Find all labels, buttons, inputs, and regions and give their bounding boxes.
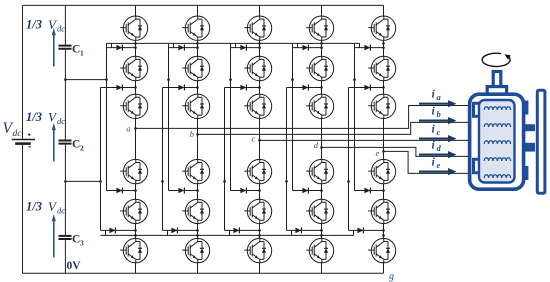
- wire: leg d column segment below switch 3: [321, 119, 323, 160]
- wire: leg a column segment below switch 2: [135, 81, 137, 94]
- svg-text:d: d: [314, 140, 319, 150]
- wire: leg c column segment below switch 2: [259, 81, 261, 94]
- wire: stub from inner bus to clamp wire leg a: [111, 43, 113, 47]
- svg-text:b: b: [190, 129, 194, 139]
- wire: left source wire upper segment: [22, 5, 24, 139]
- wire: stub from clamp wire to outer bus leg b: [167, 230, 169, 235]
- wire: outer clamp rail leg a: [100, 88, 102, 231]
- capacitor C2: [59, 141, 72, 144]
- clamping diode Dc1: [240, 45, 246, 51]
- svg-text:e: e: [376, 148, 380, 158]
- junction node leg d at y=47.6: [320, 46, 323, 49]
- wire: leg d column segment below switch 4: [321, 184, 323, 199]
- wire: clamp connection at y=230.4 leg d: [287, 229, 322, 231]
- clamping diode Dc4: [233, 227, 239, 233]
- clamping diode Da2: [116, 85, 122, 91]
- wire: phase b output line to motor: [198, 122, 478, 134]
- wire: leg e column bottom connection: [383, 263, 385, 274]
- clamping diode Dd3: [302, 188, 308, 194]
- clamping diode Da3: [116, 188, 122, 194]
- IGBT switch Sb6 with freewheeling diode: [182, 238, 210, 262]
- wire: leg c column segment below switch 3: [259, 119, 261, 160]
- wire: outer clamp rail leg d: [286, 88, 288, 231]
- junction node inner bus crossing leg c: [258, 42, 261, 45]
- IGBT switch Sd3 with freewheeling diode: [306, 94, 334, 118]
- IGBT switch Sc1 with freewheeling diode: [244, 16, 272, 40]
- wire: leg a column segment below switch 3: [135, 119, 137, 160]
- wire: phase a output line to motor: [136, 106, 478, 129]
- wire: clamp connection at y=87.5 leg e: [349, 87, 384, 89]
- svg-text:c: c: [252, 134, 256, 144]
- wire: common bus linking inner clamp rails: [107, 42, 360, 44]
- current arrow i_c: [419, 138, 449, 140]
- wire: bottom DC bus (0V rail): [23, 272, 384, 274]
- IGBT switch Sb4 with freewheeling diode: [182, 159, 210, 183]
- clamping diode Dd1: [302, 45, 308, 51]
- junction node leg c at y=47.6: [258, 46, 261, 49]
- IGBT switch Sb3 with freewheeling diode: [182, 94, 210, 118]
- IGBT switch Sd4 with freewheeling diode: [306, 159, 334, 183]
- rotation arrow above shaft: [482, 53, 510, 66]
- wire: clamp connection at y=87.5 leg c: [225, 87, 260, 89]
- wire: outer clamp rail leg b: [162, 88, 164, 231]
- wire: capacitor string segment C1 to C2: [64, 50, 66, 140]
- junction node leg c at y=87.5: [258, 86, 261, 89]
- junction node leg d at y=230.4: [320, 229, 323, 232]
- clamping diode Dc2: [240, 85, 246, 91]
- wire: outer clamp rail leg c: [224, 88, 226, 231]
- clamping diode Dd4: [295, 227, 301, 233]
- wire: leg b column top connection: [197, 5, 199, 16]
- IGBT switch Sb2 with freewheeling diode: [182, 56, 210, 80]
- IGBT switch Se6 with freewheeling diode: [368, 238, 396, 262]
- svg-text:1/3: 1/3: [26, 18, 42, 32]
- wire: leg b column segment below switch 3: [197, 119, 199, 160]
- arrow: 1/3 Vdc capacitor voltage arrow 2: [53, 129, 55, 162]
- wire: phase e output line to motor: [384, 151, 478, 173]
- IGBT switch Sa6 with freewheeling diode: [120, 238, 148, 262]
- current arrow i_d: [419, 154, 449, 156]
- IGBT switch Sa2 with freewheeling diode: [120, 56, 148, 80]
- wire: left source wire lower segment: [22, 144, 24, 273]
- wire: capacitor string segment C2 to C3: [64, 145, 66, 235]
- wire: leg c column segment below switch 5: [259, 224, 261, 239]
- junction node leg b at y=47.6: [196, 46, 199, 49]
- clamping diode De2: [364, 85, 370, 91]
- junction node phase b output: [196, 133, 199, 136]
- junction node on inner rail leg a: [105, 78, 108, 81]
- junction node leg c at y=190.5: [258, 189, 261, 192]
- wire: top DC bus (+Vdc rail): [23, 4, 384, 6]
- wire: stub from inner bus to clamp wire leg e: [359, 43, 361, 47]
- wire: stub from inner bus to clamp wire leg d: [297, 43, 299, 47]
- junction node outer bus crossing leg b: [196, 234, 199, 237]
- svg-text:e: e: [437, 160, 441, 170]
- clamping diode Db1: [178, 45, 184, 51]
- junction node on inner rail leg d: [291, 78, 294, 81]
- wire: capacitor string segment top bus to C1: [64, 5, 66, 44]
- clamping diode Da4: [109, 227, 115, 233]
- wire: clamp connection at y=230.4 leg a: [101, 229, 136, 231]
- wire: phase d output line to motor: [322, 147, 478, 156]
- motor shaft stem: [493, 72, 501, 89]
- IGBT switch Sa3 with freewheeling diode: [120, 94, 148, 118]
- svg-text:2: 2: [80, 144, 84, 153]
- junction node outer bus crossing leg a: [134, 234, 137, 237]
- wire: inner clamp rail leg e: [354, 43, 356, 190]
- junction node inner bus crossing leg a: [134, 42, 137, 45]
- svg-text:3: 3: [80, 239, 84, 248]
- motor shaft coupling lower bar: [525, 143, 535, 152]
- clamping diode Da1: [116, 45, 122, 51]
- wire: leg d column segment below switch 1: [321, 40, 323, 56]
- wire: clamp connection at y=47.6 leg e: [355, 47, 384, 49]
- wire: leg c column segment below switch 4: [259, 184, 261, 199]
- IGBT switch Sc5 with freewheeling diode: [244, 199, 272, 223]
- wire: leg e column segment below switch 4: [383, 184, 385, 199]
- load end plate: [537, 90, 545, 193]
- wire: stub from clamp wire to outer bus leg e: [353, 230, 355, 235]
- junction node on outer rail leg d: [285, 180, 288, 183]
- junction node leg a at y=190.5: [134, 189, 137, 192]
- IGBT switch Sb5 with freewheeling diode: [182, 199, 210, 223]
- arrow: 1/3 Vdc capacitor voltage arrow 1: [53, 34, 55, 67]
- IGBT switch Sc3 with freewheeling diode: [244, 94, 272, 118]
- clamping diode Dc3: [240, 188, 246, 194]
- IGBT switch Sd6 with freewheeling diode: [306, 238, 334, 262]
- stator winding row 1: [484, 107, 510, 110]
- wire: tap from node between C2,C3 to outer clamp rail: [65, 180, 100, 182]
- wire: leg d column top connection: [321, 5, 323, 16]
- junction node leg c at y=230.4: [258, 229, 261, 232]
- clamping diode Db2: [178, 85, 184, 91]
- junction node leg b at y=87.5: [196, 86, 199, 89]
- wire: clamp connection at y=190.5 leg b: [169, 190, 198, 192]
- IGBT switch Se4 with freewheeling diode: [368, 159, 396, 183]
- wire: leg c column bottom connection: [259, 263, 261, 274]
- junction node leg e at y=87.5: [382, 86, 385, 89]
- svg-text:c: c: [437, 127, 441, 137]
- junction node inner bus crossing leg d: [320, 42, 323, 45]
- clamping diode Dd2: [302, 85, 308, 91]
- wire: phase c output line to motor: [260, 139, 478, 141]
- wire: leg e column segment below switch 5: [383, 224, 385, 239]
- wire: leg c column segment below switch 1: [259, 40, 261, 56]
- motor right flange upper: [523, 101, 529, 115]
- junction node leg e at y=230.4: [382, 229, 385, 232]
- IGBT switch Se5 with freewheeling diode: [368, 199, 396, 223]
- winding terminal hook lower: [474, 159, 481, 173]
- wire: clamp connection at y=230.4 leg b: [163, 229, 198, 231]
- capacitor C1: [59, 46, 72, 49]
- current arrow i_b: [419, 119, 449, 121]
- IGBT switch Sb1 with freewheeling diode: [182, 16, 210, 40]
- wire: clamp connection at y=47.6 leg a: [107, 47, 136, 49]
- wire: clamp connection at y=87.5 leg d: [287, 87, 322, 89]
- wire: clamp connection at y=87.5 leg b: [163, 87, 198, 89]
- wire: stub from inner bus to clamp wire leg c: [235, 43, 237, 47]
- junction node on inner rail leg b: [167, 78, 170, 81]
- battery V_dc positive plate: [12, 139, 35, 141]
- junction node leg d at y=190.5: [320, 189, 323, 192]
- svg-text:dc: dc: [57, 24, 65, 34]
- junction node inner bus crossing leg e: [382, 42, 385, 45]
- motor body housing: [470, 94, 524, 189]
- svg-text:b: b: [437, 109, 441, 119]
- junction node leg d at y=87.5: [320, 86, 323, 89]
- wire: outer clamp rail leg e: [348, 88, 350, 231]
- wire: stub from clamp wire to outer bus leg d: [291, 230, 293, 235]
- junction node leg b at y=190.5: [196, 189, 199, 192]
- wire: leg d column segment below switch 5: [321, 224, 323, 239]
- junction node phase d output: [320, 146, 323, 149]
- winding terminal hook upper: [474, 103, 481, 116]
- wire: leg b column segment below switch 4: [197, 184, 199, 199]
- IGBT switch Sd2 with freewheeling diode: [306, 56, 334, 80]
- arrow: 1/3 Vdc capacitor voltage arrow 3: [53, 220, 55, 258]
- wire: tap from node between C1,C2 to inner clamp rail: [65, 79, 106, 81]
- wire: leg b column segment below switch 2: [197, 81, 199, 94]
- junction node outer bus crossing leg c: [258, 234, 261, 237]
- IGBT switch Sc6 with freewheeling diode: [244, 238, 272, 262]
- junction node on outer rail leg e: [347, 180, 350, 183]
- battery polarity marks: [28, 133, 31, 136]
- IGBT switch Se1 with freewheeling diode: [368, 16, 396, 40]
- junction node on inner rail leg e: [353, 78, 356, 81]
- svg-text:dc: dc: [57, 116, 65, 126]
- junction node on outer rail leg c: [223, 180, 226, 183]
- wire: leg c column top connection: [259, 5, 261, 16]
- junction node outer bus crossing leg e: [382, 234, 385, 237]
- wire: clamp connection at y=190.5 leg c: [231, 190, 260, 192]
- junction node phase e output: [382, 150, 385, 153]
- IGBT switch Se3 with freewheeling diode: [368, 94, 396, 118]
- wire: stub from inner bus to clamp wire leg b: [173, 43, 175, 47]
- wire: leg b column segment below switch 1: [197, 40, 199, 56]
- wire: inner clamp rail leg c: [230, 43, 232, 190]
- junction node phase a output: [134, 127, 137, 130]
- wire: common bus linking outer clamp rails: [101, 234, 354, 236]
- IGBT switch Se2 with freewheeling diode: [368, 56, 396, 80]
- junction node on inner rail leg c: [229, 78, 232, 81]
- wire: leg a column segment below switch 5: [135, 224, 137, 239]
- junction node leg b at y=230.4: [196, 229, 199, 232]
- wire: clamp connection at y=230.4 leg e: [349, 229, 384, 231]
- clamping diode De3: [364, 188, 370, 194]
- junction node on outer rail leg a: [99, 180, 102, 183]
- IGBT switch Sd1 with freewheeling diode: [306, 16, 334, 40]
- wire: leg e column segment below switch 3: [383, 119, 385, 160]
- svg-text:0V: 0V: [67, 260, 82, 272]
- stator winding row 5: [484, 175, 510, 178]
- IGBT switch Sa5 with freewheeling diode: [120, 199, 148, 223]
- clamping diode De4: [357, 227, 363, 233]
- IGBT switch Sc2 with freewheeling diode: [244, 56, 272, 80]
- current arrow i_e: [419, 171, 449, 173]
- motor stator core: [479, 100, 515, 183]
- svg-text:dc: dc: [13, 129, 23, 139]
- motor shaft base block: [487, 87, 506, 95]
- clamping diode Db4: [171, 227, 177, 233]
- wire: clamp connection at y=47.6 leg b: [169, 47, 198, 49]
- wire: leg d column bottom connection: [321, 263, 323, 274]
- junction node leg a at y=230.4: [134, 229, 137, 232]
- wire: capacitor string segment C3 to bottom bus: [64, 240, 66, 273]
- wire: inner clamp rail leg b: [168, 43, 170, 190]
- svg-text:a: a: [126, 123, 130, 133]
- stator winding row 4: [484, 158, 510, 161]
- wire: leg a column top connection: [135, 5, 137, 16]
- IGBT switch Sd5 with freewheeling diode: [306, 199, 334, 223]
- junction node on capacitor string at 1/3 Vdc: [64, 180, 67, 183]
- junction node leg e at y=190.5: [382, 189, 385, 192]
- svg-text:1/3: 1/3: [26, 110, 42, 124]
- IGBT switch Sc4 with freewheeling diode: [244, 159, 272, 183]
- junction node phase c output: [258, 139, 261, 142]
- clamping diode De1: [364, 45, 370, 51]
- junction node on outer rail leg b: [161, 180, 164, 183]
- wire: clamp connection at y=190.5 leg e: [355, 190, 384, 192]
- stator winding row 3: [484, 141, 510, 144]
- stator winding row 2: [484, 124, 510, 127]
- wire: clamp connection at y=190.5 leg d: [293, 190, 322, 192]
- wire: inner clamp rail leg a: [106, 43, 108, 190]
- wire: leg e column segment below switch 2: [383, 81, 385, 94]
- wire: leg e column segment below switch 1: [383, 40, 385, 56]
- wire: leg b column segment below switch 5: [197, 224, 199, 239]
- svg-text:1: 1: [80, 49, 84, 58]
- junction node inner bus crossing leg b: [196, 42, 199, 45]
- current arrow i_a: [419, 103, 449, 105]
- junction node on capacitor string at 2/3 Vdc: [64, 78, 67, 81]
- motor shaft coupling upper bar: [525, 124, 535, 131]
- wire: inner clamp rail leg d: [292, 43, 294, 190]
- clamping diode Db3: [178, 188, 184, 194]
- wire: stub from clamp wire to outer bus leg a: [105, 230, 107, 235]
- wire: clamp connection at y=47.6 leg c: [231, 47, 260, 49]
- wire: clamp connection at y=47.6 leg d: [293, 47, 322, 49]
- svg-text:dc: dc: [57, 206, 65, 216]
- junction node leg a at y=87.5: [134, 86, 137, 89]
- svg-text:1/3: 1/3: [26, 200, 42, 214]
- wire: leg e column top connection: [383, 5, 385, 16]
- junction node leg a at y=47.6: [134, 46, 137, 49]
- wire: leg b column bottom connection: [197, 263, 199, 274]
- capacitor C3: [59, 236, 72, 239]
- junction node leg e at y=47.6: [382, 46, 385, 49]
- wire: clamp connection at y=230.4 leg c: [225, 229, 260, 231]
- IGBT switch Sa4 with freewheeling diode: [120, 159, 148, 183]
- wire: leg a column segment below switch 1: [135, 40, 137, 56]
- battery V_dc negative plate: [15, 142, 31, 145]
- wire: leg d column segment below switch 2: [321, 81, 323, 94]
- IGBT switch Sa1 with freewheeling diode: [120, 16, 148, 40]
- wire: clamp connection at y=87.5 leg a: [101, 87, 136, 89]
- svg-text:g: g: [389, 271, 394, 282]
- wire: leg a column segment below switch 4: [135, 184, 137, 199]
- wire: stub from clamp wire to outer bus leg c: [229, 230, 231, 235]
- wire: leg a column bottom connection: [135, 263, 137, 274]
- junction node outer bus crossing leg d: [320, 234, 323, 237]
- motor right flange lower: [523, 166, 529, 180]
- wire: clamp connection at y=190.5 leg a: [107, 190, 136, 192]
